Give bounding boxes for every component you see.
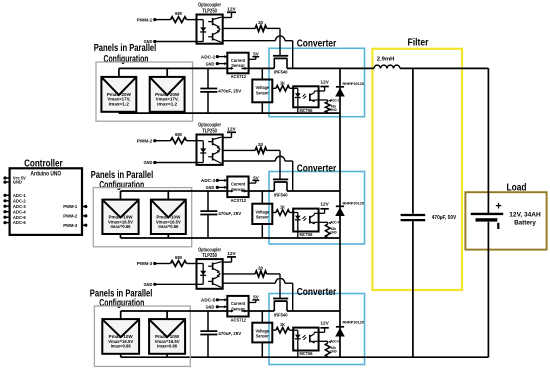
svg-text:GND: GND bbox=[144, 160, 153, 165]
svg-text:IRF540: IRF540 bbox=[274, 312, 288, 317]
adc output label row 3 bbox=[329, 341, 331, 344]
svg-text:ADC-1: ADC-1 bbox=[201, 54, 216, 59]
svg-text:Filter: Filter bbox=[408, 38, 429, 49]
svg-text:PWM-2: PWM-2 bbox=[137, 138, 153, 144]
svg-text:GND: GND bbox=[330, 350, 337, 354]
svg-text:Current: Current bbox=[231, 301, 245, 307]
voltage sensor box row 2 bbox=[261, 191, 263, 204]
svg-text:ADC-5: ADC-5 bbox=[201, 298, 216, 303]
svg-text:Sensor: Sensor bbox=[256, 334, 269, 340]
svg-text:GND: GND bbox=[206, 185, 215, 190]
resistor 20 gate row 3 bbox=[255, 271, 266, 277]
converter region box row 3 bbox=[269, 294, 365, 365]
wire gate resistor to mosfet gate row 1 bbox=[267, 27, 280, 29]
svg-text:Voltage: Voltage bbox=[256, 85, 270, 91]
svg-text:Converter: Converter bbox=[297, 163, 337, 174]
svg-text:680: 680 bbox=[175, 132, 182, 137]
panels group box row 1 bbox=[96, 62, 193, 121]
svg-text:1K: 1K bbox=[280, 322, 285, 327]
svg-text:TLP250: TLP250 bbox=[202, 253, 217, 259]
svg-text:20: 20 bbox=[258, 20, 263, 25]
svg-text:Voltage: Voltage bbox=[256, 209, 270, 215]
svg-text:12V: 12V bbox=[320, 202, 329, 208]
svg-text:470uF, 25V: 470uF, 25V bbox=[218, 331, 242, 336]
resistor 20 gate row 1 bbox=[255, 25, 266, 31]
wire current sensor to mosfet row 1 bbox=[249, 67, 275, 69]
capacitor 470uF 25V row 1 bbox=[207, 68, 209, 88]
adc output label row 2 bbox=[329, 222, 331, 225]
wire MCT6A LED cathode to ground rail row 3 bbox=[297, 351, 299, 358]
wire opto return with crossover hump row 2 bbox=[223, 160, 276, 162]
svg-text:Imax=0.66: Imax=0.66 bbox=[111, 344, 132, 349]
filter region box bbox=[372, 49, 462, 290]
svg-text:ADC-4: ADC-4 bbox=[13, 209, 26, 214]
resistor 43k to ground row 2 bbox=[327, 222, 329, 224]
adc output label row 1 bbox=[329, 99, 331, 102]
svg-text:Imax=0.66: Imax=0.66 bbox=[157, 344, 178, 349]
svg-text:ADC-3: ADC-3 bbox=[13, 204, 26, 209]
svg-text:5V: 5V bbox=[253, 295, 259, 300]
svg-text:470uF, 25V: 470uF, 25V bbox=[218, 88, 242, 93]
svg-text:1K: 1K bbox=[280, 205, 285, 210]
svg-text:20: 20 bbox=[258, 266, 263, 271]
wire bottom return rail bbox=[167, 356, 488, 358]
svg-text:470uF, 25V: 470uF, 25V bbox=[218, 211, 242, 216]
capacitor 470uF 25V row 3 bbox=[207, 311, 209, 331]
svg-text:Sensor: Sensor bbox=[256, 91, 269, 97]
svg-text:Imax=1.2: Imax=1.2 bbox=[109, 101, 130, 106]
wire mosfet to diode bus row 3 bbox=[287, 310, 340, 312]
mosfet Q3 IRF540 bbox=[273, 298, 288, 300]
wire panel bottom bus row 3 bbox=[121, 356, 167, 358]
svg-text:ADC-1: ADC-1 bbox=[13, 193, 26, 198]
solar panel 1 row 1 bbox=[101, 77, 136, 112]
svg-text:Battery: Battery bbox=[514, 220, 536, 227]
wire opto output to gate resistor row 1 bbox=[223, 27, 256, 29]
wire mosfet to diode bus row 1 bbox=[287, 67, 340, 69]
diode D1 RHRP30120 bbox=[336, 86, 344, 88]
svg-text:RHRP30120: RHRP30120 bbox=[343, 202, 365, 206]
svg-text:Arduino UNO: Arduino UNO bbox=[31, 170, 62, 177]
wire gnd to optocoupler row 1 bbox=[155, 41, 197, 43]
solar panel 1 row 2 bbox=[102, 200, 138, 234]
wire panel top bus row 3 bbox=[121, 310, 228, 312]
optocoupler MCT6A internals row 3 bbox=[293, 329, 298, 331]
wire opto output to gate resistor row 2 bbox=[223, 149, 256, 151]
battery minus mark bbox=[497, 223, 499, 229]
svg-text:GND: GND bbox=[144, 282, 153, 287]
current sensor through arrows row 3 bbox=[227, 310, 231, 312]
svg-text:20: 20 bbox=[258, 142, 263, 147]
svg-text:12V: 12V bbox=[320, 79, 329, 85]
converter region box row 1 bbox=[269, 48, 365, 116]
load region box bbox=[465, 192, 546, 249]
voltage sensor box row 1 bbox=[261, 68, 263, 79]
wire opto return with crossover hump row 1 bbox=[223, 40, 276, 42]
voltage sensor fill row 2 bbox=[252, 204, 272, 224]
current sensor U1 ACS712 box bbox=[227, 53, 248, 74]
svg-text:ADC-6: ADC-6 bbox=[331, 340, 340, 344]
optocoupler U3 TLP250 box bbox=[197, 259, 223, 289]
capacitor 470uF 25V row 2 bbox=[207, 191, 209, 211]
wire pwm to resistor row 3 bbox=[155, 263, 171, 265]
resistor 680 row 1 bbox=[171, 17, 187, 23]
svg-text:GND: GND bbox=[206, 61, 215, 66]
svg-text:RHRP30120: RHRP30120 bbox=[343, 82, 365, 86]
resistor 680 row 3 bbox=[171, 261, 187, 267]
svg-text:ACS712: ACS712 bbox=[231, 198, 247, 204]
optocoupler MCT6A internals row 2 bbox=[293, 212, 298, 214]
svg-text:Sensor: Sensor bbox=[256, 215, 269, 221]
svg-text:Converter: Converter bbox=[297, 287, 337, 298]
wire MCT6A emitter to adc node row 3 bbox=[319, 340, 328, 342]
node pwm dot row 3 bbox=[153, 262, 156, 265]
svg-text:PWM-2: PWM-2 bbox=[63, 214, 78, 219]
svg-text:RHRP30120: RHRP30120 bbox=[343, 320, 365, 324]
svg-text:ACS712: ACS712 bbox=[231, 317, 247, 323]
svg-text:GND: GND bbox=[144, 39, 153, 44]
resistor 43k to ground row 3 bbox=[327, 341, 329, 343]
battery B1 bbox=[471, 213, 504, 215]
wire mosfet to diode bus row 2 bbox=[287, 190, 340, 192]
node pwm dot row 2 bbox=[153, 139, 156, 142]
optocoupler TLP250 internals row 1 bbox=[197, 19, 204, 21]
current sensor through arrows row 1 bbox=[227, 67, 231, 69]
resistor 20 gate row 2 bbox=[255, 147, 266, 153]
optocoupler TLP250 internals row 3 bbox=[197, 263, 204, 265]
svg-text:ADC-4: ADC-4 bbox=[331, 221, 340, 225]
svg-text:ADC-2: ADC-2 bbox=[13, 198, 26, 203]
svg-text:Configuration: Configuration bbox=[99, 297, 144, 309]
svg-text:Configuration: Configuration bbox=[104, 53, 149, 65]
svg-text:Current: Current bbox=[231, 58, 245, 64]
node gnd dot row 3 bbox=[153, 283, 156, 286]
resistor 43k to ground row 1 bbox=[327, 100, 329, 102]
wire resistor to optocoupler row 2 bbox=[187, 140, 197, 142]
diode D2 RHRP30120 bbox=[336, 205, 344, 207]
wire MCT6A emitter to adc node row 1 bbox=[319, 99, 328, 101]
optocoupler MCT6A internals row 1 bbox=[293, 87, 298, 89]
svg-text:470µF, 50V: 470µF, 50V bbox=[432, 215, 457, 221]
solar panel 1 row 3 bbox=[102, 319, 139, 354]
wire filter capacitor branch bbox=[412, 68, 414, 213]
diode D3 RHRP30120 bbox=[336, 326, 344, 328]
svg-text:MCT66: MCT66 bbox=[300, 351, 313, 356]
wire pwm to resistor row 2 bbox=[155, 140, 171, 142]
wire battery right vertical bbox=[487, 68, 489, 213]
svg-text:Voltage: Voltage bbox=[256, 328, 270, 334]
solar panel 2 row 1 bbox=[150, 77, 185, 112]
optocoupler U2 TLP250 box bbox=[197, 135, 223, 165]
svg-text:680: 680 bbox=[175, 11, 182, 16]
svg-text:IRF540: IRF540 bbox=[274, 192, 288, 197]
wire panel bottom bus row 1 bbox=[119, 112, 340, 114]
wire resistor to optocoupler row 3 bbox=[187, 263, 197, 265]
wire gate resistor to mosfet gate row 2 bbox=[267, 149, 280, 151]
wire panel top bus row 1 bbox=[119, 67, 227, 69]
inductor L1 2.9mH bbox=[374, 65, 400, 68]
svg-text:GND: GND bbox=[206, 305, 215, 310]
svg-text:MCT66: MCT66 bbox=[300, 232, 313, 237]
wire diode bus vertical bbox=[339, 68, 341, 357]
filter capacitor C4 470uF 50V bbox=[401, 214, 426, 216]
wire opto output to gate resistor row 3 bbox=[223, 273, 256, 275]
svg-text:2.9mH: 2.9mH bbox=[377, 57, 395, 63]
optocoupler MCT6A box row 2 bbox=[293, 209, 318, 232]
svg-text:GND: GND bbox=[330, 231, 337, 235]
svg-text:ACS712: ACS712 bbox=[231, 74, 247, 80]
wire panel bottom bus row 2 bbox=[121, 237, 341, 239]
voltage sensor box row 3 bbox=[261, 311, 263, 323]
svg-text:PWM-1: PWM-1 bbox=[63, 204, 78, 209]
svg-text:ADC-2: ADC-2 bbox=[331, 98, 340, 102]
wire current sensor to mosfet row 2 bbox=[249, 190, 275, 192]
svg-text:MCT66: MCT66 bbox=[300, 108, 313, 113]
wire MCT6A emitter to adc node row 2 bbox=[319, 221, 328, 223]
svg-text:1K: 1K bbox=[280, 80, 285, 85]
node pwm dot row 1 bbox=[153, 18, 156, 21]
solar panel 2 row 2 bbox=[151, 200, 186, 234]
resistor 1K row 2 bbox=[272, 212, 276, 214]
wire gnd to optocoupler row 3 bbox=[155, 283, 197, 285]
wire gate resistor to mosfet gate row 3 bbox=[267, 273, 280, 275]
svg-text:Imax=0.66: Imax=0.66 bbox=[111, 224, 132, 229]
svg-text:GND: GND bbox=[13, 180, 22, 185]
svg-text:ADC-6: ADC-6 bbox=[13, 220, 26, 225]
panels group box row 3 bbox=[94, 306, 190, 366]
svg-text:IRF540: IRF540 bbox=[274, 70, 288, 75]
wire MCT6A LED cathode to ground rail row 1 bbox=[297, 107, 299, 113]
wire resistor to optocoupler row 1 bbox=[187, 19, 197, 21]
svg-text:Sensor: Sensor bbox=[231, 187, 245, 193]
svg-text:680: 680 bbox=[175, 255, 182, 260]
voltage sensor fill row 1 bbox=[252, 80, 272, 103]
wire gnd to optocoupler row 2 bbox=[155, 162, 197, 164]
mosfet Q2 IRF540 bbox=[273, 178, 288, 180]
optocoupler U1 TLP250 box bbox=[197, 15, 223, 44]
optocoupler MCT6A box row 1 bbox=[293, 86, 318, 107]
converter region box row 2 bbox=[269, 172, 365, 245]
wire MCT6A LED cathode to ground rail row 2 bbox=[297, 232, 299, 239]
svg-text:PWM-1: PWM-1 bbox=[137, 17, 153, 23]
svg-text:Converter: Converter bbox=[297, 38, 337, 49]
svg-text:Imax=0.66: Imax=0.66 bbox=[158, 224, 179, 229]
svg-text:PWM-3: PWM-3 bbox=[63, 223, 78, 228]
wire current sensor to mosfet row 3 bbox=[249, 310, 275, 312]
resistor 680 row 2 bbox=[171, 138, 187, 144]
svg-text:12V: 12V bbox=[320, 321, 329, 327]
svg-text:12V, 34AH: 12V, 34AH bbox=[509, 211, 541, 218]
current sensor U3 ACS712 box bbox=[227, 296, 248, 317]
current sensor through arrows row 2 bbox=[227, 190, 231, 192]
mosfet Q1 IRF540 bbox=[273, 55, 288, 57]
node gnd dot row 2 bbox=[153, 161, 156, 164]
wire top output rail to battery bbox=[340, 67, 374, 69]
optocoupler MCT6A box row 3 bbox=[293, 328, 318, 351]
svg-text:5V: 5V bbox=[253, 52, 259, 57]
svg-text:PWM-3: PWM-3 bbox=[137, 261, 153, 267]
svg-text:Load: Load bbox=[507, 182, 527, 193]
optocoupler TLP250 internals row 2 bbox=[197, 140, 204, 142]
svg-text:GND: GND bbox=[330, 108, 337, 112]
svg-text:Current: Current bbox=[231, 182, 245, 188]
svg-text:ADC-3: ADC-3 bbox=[201, 178, 216, 183]
svg-text:+: + bbox=[495, 200, 501, 212]
wire pwm to resistor row 1 bbox=[155, 19, 171, 21]
panels group box row 2 bbox=[93, 188, 191, 247]
svg-text:Configuration: Configuration bbox=[99, 179, 144, 191]
svg-text:5V: 5V bbox=[253, 175, 259, 180]
voltage sensor fill row 3 bbox=[252, 323, 272, 343]
controller U4 Arduino UNO box bbox=[10, 168, 82, 235]
solar panel 2 row 3 bbox=[149, 319, 185, 354]
current sensor U2 ACS712 box bbox=[227, 177, 248, 198]
node gnd dot row 1 bbox=[153, 40, 156, 43]
resistor 1K row 1 bbox=[272, 87, 276, 89]
wire panel top bus row 2 bbox=[121, 190, 228, 192]
svg-text:TLP250: TLP250 bbox=[202, 128, 217, 134]
wire opto return with crossover hump row 3 bbox=[223, 282, 276, 284]
svg-text:ADC-5: ADC-5 bbox=[13, 215, 26, 220]
resistor 1K row 3 bbox=[272, 329, 276, 331]
svg-text:Imax=1.2: Imax=1.2 bbox=[157, 101, 178, 106]
svg-text:TLP250: TLP250 bbox=[202, 8, 217, 14]
